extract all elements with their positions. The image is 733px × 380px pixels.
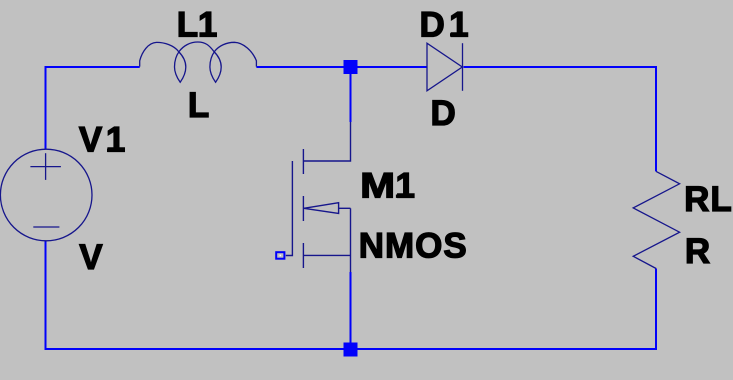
transistor M1 (NMOS)	[286, 122, 351, 272]
top channel bar	[302, 149, 304, 174]
wire top-left horizontal	[45, 66, 140, 68]
svg-text:D: D	[419, 5, 444, 44]
resistor RL	[633, 171, 679, 268]
inductor L1	[140, 42, 257, 82]
svg-text:R: R	[685, 232, 710, 271]
bottom channel bar	[302, 243, 304, 268]
node junction top	[344, 60, 358, 74]
wire left vertical lower	[45, 241, 47, 350]
diode D1	[427, 43, 463, 91]
bulk arrow	[304, 203, 339, 214]
svg-text:M: M	[360, 167, 395, 206]
gate terminal square	[276, 252, 284, 259]
svg-text:D: D	[431, 94, 456, 133]
svg-text:1: 1	[106, 121, 125, 160]
svg-text:L: L	[188, 86, 209, 125]
wire top-right horizontal	[464, 66, 657, 68]
wire mosfet drain	[350, 67, 352, 122]
svg-text:RL: RL	[684, 180, 733, 219]
wire bottom horizontal	[45, 348, 657, 350]
voltage source V1	[0, 149, 92, 241]
node junction bottom	[344, 343, 358, 357]
svg-text:1: 1	[198, 5, 217, 44]
wire right vertical upper	[655, 66, 657, 171]
wire left vertical upper	[45, 66, 47, 150]
gate plate	[286, 161, 293, 256]
svg-text:1: 1	[396, 167, 415, 206]
svg-text:V: V	[79, 238, 103, 277]
wire top-middle horizontal	[256, 66, 427, 68]
middle channel bar	[302, 196, 304, 221]
wire right vertical lower	[655, 269, 657, 351]
drain lead	[303, 122, 350, 161]
svg-text:NMOS: NMOS	[359, 227, 468, 266]
svg-text:V: V	[79, 121, 103, 160]
wire mosfet source	[350, 272, 352, 349]
source lead	[303, 254, 350, 256]
svg-text:L: L	[177, 5, 198, 44]
svg-text:1: 1	[449, 5, 468, 44]
